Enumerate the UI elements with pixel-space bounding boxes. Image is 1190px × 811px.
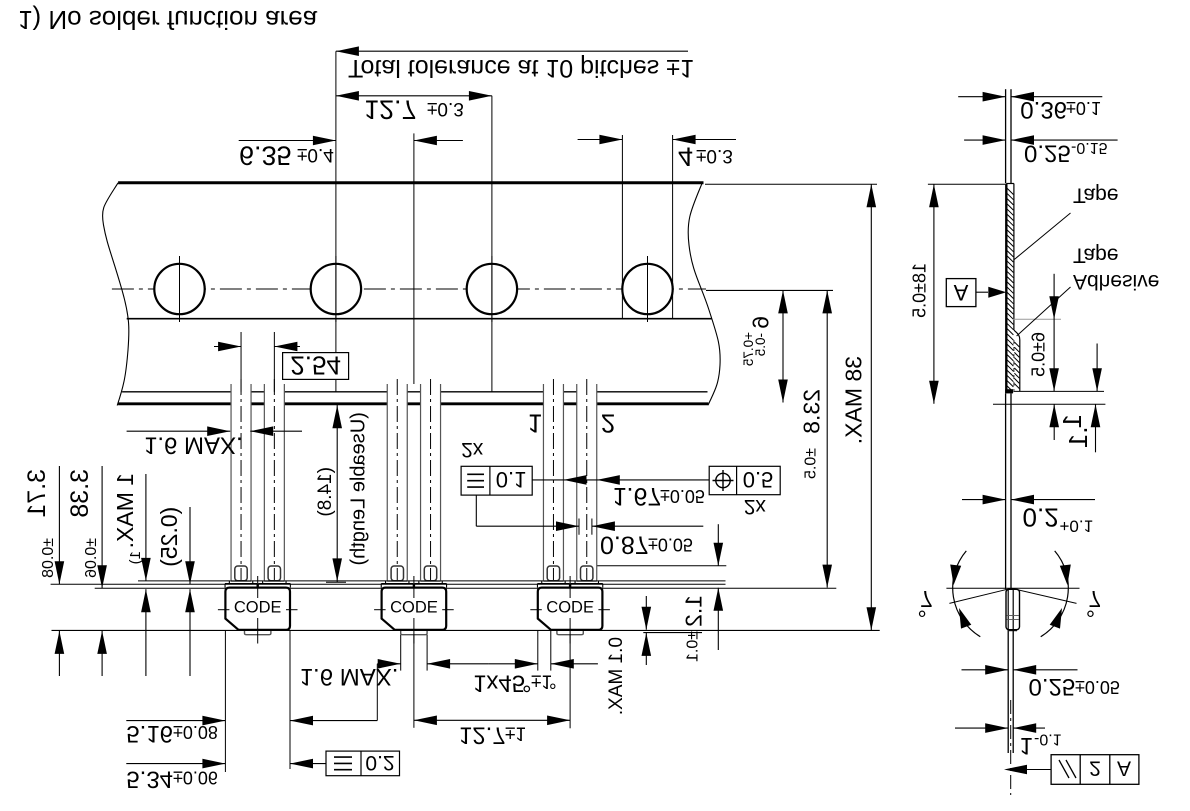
svg-text:Tape: Tape <box>1073 184 1119 207</box>
dimension 0.1 MAX. (body vs seating plane) <box>645 596 647 630</box>
lead centerline inside body <box>430 588 432 598</box>
svg-text:0.2: 0.2 <box>1023 503 1059 533</box>
dimension 0.25 -0.15 (lead) <box>964 139 1006 141</box>
component P1 centerline <box>257 576 259 598</box>
svg-text:CODE: CODE <box>546 597 594 615</box>
lead stopper bump <box>268 566 280 581</box>
gray line adhesive top reference <box>1013 318 1061 320</box>
leader from FCF bottom to narrow lead section <box>475 495 477 526</box>
component P3 body <box>538 588 603 630</box>
component P1 leads <box>231 384 251 406</box>
FCF leader <box>1022 769 1051 771</box>
lead shoulder line (seating) <box>138 580 726 582</box>
component P2 centerline above tape (6.35 ref) <box>413 133 415 182</box>
svg-text:±1: ±1 <box>505 723 526 744</box>
adhesive tape flare <box>1014 330 1020 391</box>
thin line at tape lower edge (side) <box>1014 390 1104 392</box>
svg-text:5.34: 5.34 <box>126 766 173 793</box>
tape lower thin line <box>122 391 707 393</box>
sprocket hole 1 <box>154 264 204 314</box>
dimension 6±0.5 (adhesive width) <box>1053 274 1055 391</box>
svg-text:1.6 MAX.: 1.6 MAX. <box>300 663 399 690</box>
dimension 3.38±0.06 <box>101 466 103 588</box>
svg-text:1): 1) <box>127 551 144 564</box>
lead centerline <box>430 379 432 581</box>
dimension 1 (lower tape edge to line) <box>1096 344 1098 392</box>
hatching carrier <box>1007 188 1014 195</box>
component P2 body <box>382 588 447 630</box>
component P2 centerline extension <box>413 635 415 728</box>
component P3 bottom tab <box>557 631 583 635</box>
lead centerline <box>552 379 554 581</box>
dimension 1. (adhesive bottom) <box>1053 404 1055 440</box>
dimension 6 +0.75/-0.5 <box>782 290 784 402</box>
dimension 5.34±0.06 with symmetry FCF <box>126 763 225 765</box>
svg-text:0.36: 0.36 <box>1020 96 1067 123</box>
FCF parallelism 2 A <box>1051 755 1139 785</box>
svg-text:1: 1 <box>528 409 542 439</box>
svg-text:(Useable Length): (Useable Length) <box>348 412 370 565</box>
seating plane line <box>643 632 702 634</box>
svg-text:0.1 MAX.: 0.1 MAX. <box>606 637 627 715</box>
component P1 body <box>225 588 290 630</box>
svg-text:°: ° <box>918 596 927 622</box>
comp P1 body edge extensions <box>224 631 226 772</box>
dimension 0.2 +0.1 (lead thickness) <box>962 499 1006 501</box>
lead below bump <box>1007 630 1009 753</box>
lead stopper bump <box>547 566 559 581</box>
svg-text:0.25: 0.25 <box>1029 673 1076 700</box>
lead stopper bump <box>581 566 593 581</box>
lead centerline below <box>1010 700 1012 795</box>
tilt arc right with arrows <box>1041 551 1069 637</box>
svg-text:18±0.5: 18±0.5 <box>910 263 930 318</box>
svg-text:±0.06: ±0.06 <box>173 768 218 788</box>
svg-text:3.38: 3.38 <box>66 469 94 518</box>
hole 2 centerline extension (dim reference) <box>335 51 337 392</box>
tape right wavy break edge <box>688 184 720 405</box>
hatching adhesive <box>1014 342 1019 347</box>
component P2 centerline <box>413 576 415 598</box>
lead stopper bump <box>424 566 436 581</box>
svg-text:23.8: 23.8 <box>799 389 825 434</box>
tape bottom thick edge <box>118 402 708 405</box>
lead centerline <box>586 379 588 581</box>
svg-text:2x: 2x <box>744 495 767 518</box>
dimension 1.6 MAX. (lead width, comp P1) <box>127 430 231 432</box>
lead centerline inside body <box>240 588 242 598</box>
svg-text:38 MAX.: 38 MAX. <box>841 356 867 444</box>
dimension 3.71±0.08 <box>58 466 60 584</box>
hole 4 diameter tangent extension lines <box>621 135 623 319</box>
dimension 1.6 MAX. (tab width, comp P2) <box>400 635 402 671</box>
svg-text:±0.05: ±0.05 <box>648 535 693 555</box>
dimension 6.35 ±0.4 (hole to component) <box>239 140 336 142</box>
FCF leaders to lead edges <box>532 479 709 481</box>
svg-text:1) No solder function area: 1) No solder function area <box>18 5 318 35</box>
svg-text:+0.1: +0.1 <box>1060 517 1094 536</box>
svg-text:(0.25): (0.25) <box>156 507 182 567</box>
lead stopper bump <box>235 566 247 581</box>
svg-text:0.2: 0.2 <box>365 751 394 774</box>
hole centerline extension to side dims <box>706 289 833 291</box>
dimension (Useable Length) (14.8) <box>336 405 338 583</box>
svg-text:.1: .1 <box>1063 427 1093 449</box>
dimension 18±0.5 (tape width) <box>928 183 1005 185</box>
svg-text:±0.05: ±0.05 <box>660 486 705 506</box>
sprocket hole centerline <box>112 288 706 290</box>
svg-text:(14.8): (14.8) <box>315 467 336 517</box>
FCF position 2x ⌖0.5 <box>709 466 780 494</box>
component P2 leads <box>387 384 407 406</box>
component P2 bottom tab <box>401 631 427 635</box>
svg-text:2: 2 <box>601 409 615 439</box>
svg-text:6±0.5: 6±0.5 <box>1029 332 1049 377</box>
svg-text:CODE: CODE <box>390 597 438 615</box>
svg-text:±0.5: ±0.5 <box>803 448 820 479</box>
tilt diagonals 7 deg <box>949 588 1011 603</box>
svg-text:±0.4: ±0.4 <box>297 144 334 165</box>
lead centerline <box>240 379 242 581</box>
dimension 1.2 ±0.1 (bump height) <box>717 524 719 566</box>
lead centerline inside body <box>273 588 275 598</box>
svg-text:-0.5: -0.5 <box>753 333 768 356</box>
body bottom plane line <box>52 629 880 631</box>
component P3 centerline <box>569 576 571 598</box>
dimension 5.16±0.08 <box>126 720 225 722</box>
component P3 centerline extension <box>569 635 571 729</box>
dimension 0.25 ±0.05 (lead) <box>962 669 1009 671</box>
CODE side ticks <box>530 609 542 611</box>
svg-text:6.35: 6.35 <box>239 141 292 171</box>
svg-text:-0.15: -0.15 <box>1071 139 1108 156</box>
dimension 12.7±1 (component pitch) <box>414 719 570 721</box>
side view: stopper bump <box>1007 589 1009 629</box>
lead stopper bump <box>391 566 403 581</box>
svg-text:±0.08: ±0.08 <box>173 722 218 742</box>
component P3 leads <box>544 384 564 406</box>
svg-text:1x45: 1x45 <box>473 670 525 697</box>
lead centerline inside body <box>552 588 554 598</box>
dimension 1 MAX.1) <box>145 474 147 581</box>
svg-text:1 MAX.: 1 MAX. <box>112 473 138 548</box>
svg-text:Adhesive: Adhesive <box>1073 270 1159 293</box>
svg-text:1.2: 1.2 <box>681 595 707 627</box>
svg-text:2: 2 <box>1089 757 1101 780</box>
svg-text:±0.1: ±0.1 <box>685 631 702 662</box>
datum A box with arrow <box>946 279 976 307</box>
lead centerline <box>396 379 398 581</box>
narrow lead section lines <box>578 519 580 535</box>
svg-text:±0.3: ±0.3 <box>427 98 464 119</box>
svg-text:0.5: 0.5 <box>743 467 774 492</box>
dimension 1x45°±1° (chamfer) <box>537 631 539 671</box>
sprocket hole 3 <box>467 264 517 314</box>
dimension (0.25) <box>189 507 191 584</box>
svg-text:2.54: 2.54 <box>290 351 341 381</box>
svg-text:12.7: 12.7 <box>364 95 417 125</box>
svg-text:4: 4 <box>678 142 693 172</box>
lead centerline inside body <box>396 588 398 598</box>
dimension 4 ±0.3 (hole diameter) <box>578 139 623 141</box>
dimension 23.8 ±0.5 <box>826 290 828 587</box>
svg-text:3.71: 3.71 <box>23 469 51 518</box>
side view: lead below tape <box>1005 393 1007 589</box>
svg-text:±0.1: ±0.1 <box>1066 98 1101 118</box>
svg-text:A: A <box>954 280 969 305</box>
svg-text:Tape: Tape <box>1073 244 1119 267</box>
svg-text:±0.08: ±0.08 <box>40 538 57 578</box>
svg-text:0.25: 0.25 <box>1024 140 1071 167</box>
FCF symmetry 0.2 <box>326 751 400 776</box>
side view: carrier tape cross-section <box>1006 183 1014 185</box>
svg-text:CODE: CODE <box>234 597 282 615</box>
side view: lead above tape <box>1005 89 1007 183</box>
lead centerline inside body <box>586 588 588 598</box>
lead tilt construction: horizontal line <box>946 587 1079 589</box>
hole 3 centerline extension (dim reference) <box>491 96 493 392</box>
dimension 2.54 (lead spacing, boxed) <box>240 332 242 392</box>
tape left wavy break edge <box>103 183 129 406</box>
svg-text:0.1: 0.1 <box>496 467 527 492</box>
tilt arc left with arrows <box>953 551 981 637</box>
svg-text:-0.1: -0.1 <box>1034 731 1062 748</box>
CODE side ticks <box>218 609 230 611</box>
bump top reference line <box>594 565 726 567</box>
svg-text:°: ° <box>549 671 557 692</box>
lead centerline <box>273 379 275 581</box>
component P1 bottom tab <box>245 631 271 635</box>
tape bottom black end <box>1005 389 1013 393</box>
dimension 38 MAX. (overall height) <box>705 183 877 185</box>
svg-text:1.6 MAX.: 1.6 MAX. <box>144 432 243 459</box>
svg-text:12.7: 12.7 <box>459 722 506 749</box>
svg-text:0.87: 0.87 <box>600 531 649 559</box>
carrier tape top edge (front view) <box>118 181 703 184</box>
svg-text:5.16: 5.16 <box>126 720 173 747</box>
svg-text:1.67: 1.67 <box>613 482 662 510</box>
tape inner line below holes <box>127 318 712 320</box>
svg-text:6: 6 <box>747 316 773 329</box>
CODE side ticks <box>374 609 386 611</box>
svg-text:±0.06: ±0.06 <box>83 538 100 578</box>
reference line 3 / body top plane <box>95 587 837 589</box>
sprocket hole 2 <box>311 264 361 314</box>
svg-text:±0.3: ±0.3 <box>696 145 733 166</box>
svg-text:1: 1 <box>1020 732 1033 759</box>
svg-text:A: A <box>1117 757 1131 780</box>
dimension 1 -0.1 <box>955 727 1008 729</box>
reference line at adhesive bottom <box>993 403 1105 405</box>
svg-text:±0.05: ±0.05 <box>1075 677 1120 697</box>
dimension: Total tolerance at 10 pitches ±1 <box>336 50 688 52</box>
svg-text:°: ° <box>1086 596 1095 622</box>
svg-text:Total tolerance at 10 pitches: Total tolerance at 10 pitches ±1 <box>348 54 694 82</box>
svg-text:2x: 2x <box>461 438 484 461</box>
reference line 2 <box>51 583 726 585</box>
dimension 12.7 ±0.3 (hole pitch) <box>336 95 492 97</box>
dimension 0.36±0.1 (lead) <box>958 96 1005 98</box>
sprocket hole 4 <box>622 264 672 314</box>
